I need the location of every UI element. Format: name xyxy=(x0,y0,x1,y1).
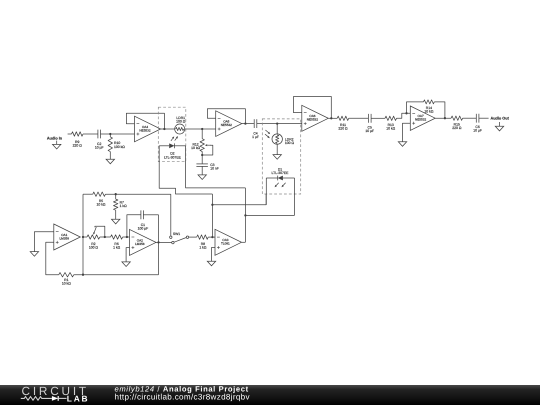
resistor R7 xyxy=(114,194,128,219)
svg-text:100 µF: 100 µF xyxy=(138,226,149,230)
svg-text:100 Ω: 100 Ω xyxy=(176,120,186,124)
capacitor C5 xyxy=(365,114,374,133)
wire xyxy=(434,102,446,119)
wire (OA6 feedback) xyxy=(294,97,333,120)
wire (to D1 right) xyxy=(245,214,294,216)
op-amp OA6 xyxy=(302,105,329,131)
wire xyxy=(371,117,385,119)
wire (OA2 + to ground) xyxy=(126,248,129,262)
wire xyxy=(161,128,175,130)
wire (OA1 + leg) xyxy=(46,242,59,274)
svg-text:1 kΩ: 1 kΩ xyxy=(120,204,128,208)
ground (C3) xyxy=(198,175,206,180)
op-amp OA2 xyxy=(130,229,157,255)
wire (OA3 + to ground) xyxy=(212,248,216,262)
svg-text:LM358: LM358 xyxy=(135,242,145,246)
wire xyxy=(479,117,489,119)
wire xyxy=(257,123,302,125)
node (LDR2 tap) xyxy=(276,122,278,124)
svg-text:LTL-307EE: LTL-307EE xyxy=(164,155,182,159)
ground (OA1) xyxy=(30,252,38,257)
wire (D1 left leg) xyxy=(265,178,267,205)
node (R2/R6) xyxy=(104,236,106,238)
capacitor C1 xyxy=(127,210,159,237)
wire (D1 right leg) xyxy=(294,178,296,215)
node Audio In xyxy=(47,136,63,140)
wire (node A riser) xyxy=(211,194,213,237)
ground (OA3) xyxy=(207,261,215,266)
wire (node A to D1 left) xyxy=(212,194,266,205)
svg-text:100 kΩ: 100 kΩ xyxy=(114,145,125,149)
svg-text:NE5532: NE5532 xyxy=(139,128,150,132)
op-amp OA4 xyxy=(135,116,161,142)
wire xyxy=(208,236,215,238)
svg-text:10 µF: 10 µF xyxy=(473,129,482,133)
wire xyxy=(68,133,72,135)
wire (to SW1) xyxy=(170,194,172,236)
node (rail / OA1 out) xyxy=(82,274,84,276)
wire (D2 left leg) xyxy=(159,146,212,194)
node (R10 tap) xyxy=(109,133,111,135)
potentiometer R2 xyxy=(83,226,105,249)
svg-text:10 µF: 10 µF xyxy=(95,145,104,149)
CircuitLab logo xyxy=(21,384,90,403)
svg-text:LM358: LM358 xyxy=(59,236,69,240)
svg-text:NE5532: NE5532 xyxy=(415,118,426,122)
svg-text:10 kΩ: 10 kΩ xyxy=(62,282,71,286)
resistor R6 xyxy=(111,235,123,250)
svg-text:1 µF: 1 µF xyxy=(252,135,259,139)
wire xyxy=(349,117,369,119)
LED D2 xyxy=(159,136,185,159)
wire (OA1 output riser) xyxy=(82,194,84,275)
wire xyxy=(276,144,278,154)
wire (OA4 feedback) xyxy=(126,113,165,130)
svg-text:http://circuitlab.com/c3r8wzd8: http://circuitlab.com/c3r8wzd8jrqbv xyxy=(115,393,251,402)
optocoupler box 2 (dashed) xyxy=(262,119,300,194)
capacitor C6 xyxy=(473,114,482,133)
resistor R10 xyxy=(108,134,125,159)
wire xyxy=(83,193,93,195)
svg-text:TL081: TL081 xyxy=(221,242,230,246)
ground (Audio Out) xyxy=(495,122,503,131)
svg-text:SW1: SW1 xyxy=(173,232,180,236)
ground (Audio In) xyxy=(53,141,61,149)
switch SW1 xyxy=(170,232,189,244)
ground (OA7) xyxy=(398,142,406,147)
svg-text:1 kΩ: 1 kΩ xyxy=(199,245,207,249)
ground (OA2) xyxy=(122,262,130,267)
resistor R11 xyxy=(337,116,349,131)
resistor R8 xyxy=(197,235,209,250)
capacitor C3 xyxy=(196,155,218,175)
wire (bottom rail) xyxy=(74,274,159,276)
wire xyxy=(189,236,197,238)
wire (R14 feedback) xyxy=(405,102,423,115)
wire xyxy=(83,133,98,135)
svg-text:10 kΩ: 10 kΩ xyxy=(191,146,200,150)
wire (C1 to rail riser) xyxy=(158,215,160,275)
wire xyxy=(435,117,451,119)
node (OA3 -) xyxy=(211,236,213,238)
svg-text:220 Ω: 220 Ω xyxy=(338,127,348,131)
capacitor C4 xyxy=(252,119,259,139)
wire xyxy=(100,236,111,238)
optocoupler box 1 (dashed) xyxy=(158,107,186,162)
svg-text:LAB: LAB xyxy=(67,393,90,403)
svg-text:10 µF: 10 µF xyxy=(365,129,374,133)
svg-text:220 Ω: 220 Ω xyxy=(73,144,83,148)
ground (LDR2) xyxy=(273,155,281,160)
op-amp OA5 xyxy=(216,111,242,137)
svg-text:10 nF: 10 nF xyxy=(210,167,219,171)
capacitor C2 xyxy=(95,130,104,150)
wire xyxy=(242,123,254,125)
op-amp OA7 xyxy=(410,106,435,130)
wire xyxy=(328,117,337,119)
LED D1 xyxy=(266,167,294,187)
photoresistor LDR1 xyxy=(175,116,186,134)
svg-text:Audio Out: Audio Out xyxy=(491,116,510,120)
node (OA2 output) xyxy=(157,241,159,243)
wire xyxy=(100,133,134,135)
op-amp OA1 xyxy=(54,224,81,250)
node (R12 tap) xyxy=(201,128,203,130)
svg-text:NE5532: NE5532 xyxy=(307,118,318,122)
ground (R7) xyxy=(112,219,120,224)
wire xyxy=(123,236,130,238)
resistor R9 xyxy=(72,132,84,148)
resistor R13 xyxy=(385,116,397,131)
svg-text:1 kΩ: 1 kΩ xyxy=(113,246,121,250)
node (R7 tap) xyxy=(115,193,117,195)
svg-text:100 Ω: 100 Ω xyxy=(89,246,99,250)
wire (OA5 feedback) xyxy=(207,109,246,125)
resistor R15 xyxy=(451,116,463,130)
potentiometer R12 xyxy=(191,129,213,156)
svg-text:NE5532: NE5532 xyxy=(221,123,232,127)
svg-text:100 Ω: 100 Ω xyxy=(285,141,295,145)
node (OA1 output) xyxy=(82,236,84,238)
wire (OA2 output) xyxy=(155,241,172,243)
node (C1 tap) xyxy=(126,236,128,238)
resistor R5 xyxy=(93,192,106,207)
wire (D2 right leg) xyxy=(186,146,246,188)
svg-text:10 kΩ: 10 kΩ xyxy=(424,110,433,114)
svg-text:220 Ω: 220 Ω xyxy=(452,126,462,130)
op-amp OA3 xyxy=(215,229,242,255)
wire xyxy=(185,128,216,130)
svg-text:Audio In: Audio In xyxy=(47,136,63,140)
svg-text:10 kΩ: 10 kΩ xyxy=(386,127,395,131)
wire xyxy=(463,117,477,119)
wire xyxy=(397,113,411,118)
wire (OA7 + to ground) xyxy=(403,123,411,142)
svg-text:LTL-307EE: LTL-307EE xyxy=(272,171,290,175)
wire (OA1 - to ground) xyxy=(34,232,53,252)
svg-text:10 kΩ: 10 kΩ xyxy=(97,203,106,207)
photoresistor LDR2 xyxy=(265,124,294,146)
footer title text xyxy=(115,384,251,401)
resistor R14 xyxy=(424,100,435,114)
wire xyxy=(105,193,170,195)
resistor R1 xyxy=(59,273,74,286)
ground (R10) xyxy=(106,159,114,164)
wire (OA3 output riser) xyxy=(242,188,247,242)
